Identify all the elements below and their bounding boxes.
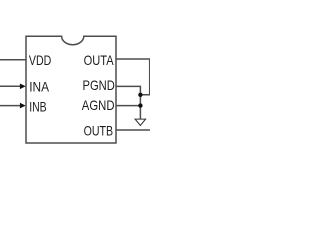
arrowhead INB xyxy=(20,103,26,109)
node junction J1 xyxy=(138,93,142,97)
wire PGND pin right then down to ground xyxy=(116,86,140,119)
ground xyxy=(135,119,146,125)
svg-text:PGND: PGND xyxy=(83,77,115,93)
wire INA pin xyxy=(0,85,21,87)
svg-text:VDD: VDD xyxy=(29,52,51,68)
wire INB pin xyxy=(0,105,21,107)
wire AGND pin xyxy=(116,105,140,107)
arrowhead INA xyxy=(20,84,26,90)
svg-text:OUTB: OUTB xyxy=(84,123,114,139)
node junction J2 xyxy=(138,103,142,107)
svg-text:INA: INA xyxy=(29,79,49,95)
IC U1 body with pin-1 notch xyxy=(26,36,116,143)
svg-text:AGND: AGND xyxy=(82,97,115,113)
wire VDD pin xyxy=(0,59,26,61)
svg-text:INB: INB xyxy=(29,99,47,115)
svg-text:OUTA: OUTA xyxy=(84,52,115,68)
wire OUTB pin xyxy=(116,129,150,131)
wire OUTA pin to right edge and down to junction J1 xyxy=(116,59,150,95)
